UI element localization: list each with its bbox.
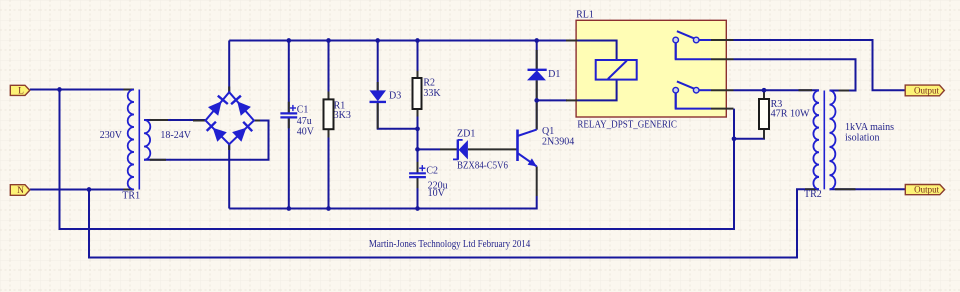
- svg-text:18-24V: 18-24V: [160, 130, 191, 141]
- svg-text:Output: Output: [914, 87, 939, 97]
- svg-text:BZX84-C5V6: BZX84-C5V6: [457, 160, 508, 171]
- svg-text:L: L: [18, 86, 24, 96]
- svg-text:isolation: isolation: [845, 133, 879, 144]
- svg-text:47u: 47u: [297, 116, 312, 127]
- svg-text:10V: 10V: [428, 188, 446, 199]
- svg-text:Output: Output: [914, 186, 939, 196]
- svg-text:ZD1: ZD1: [457, 128, 475, 139]
- svg-text:230V: 230V: [100, 130, 123, 141]
- svg-text:C1: C1: [297, 104, 309, 115]
- svg-text:D1: D1: [548, 69, 560, 80]
- svg-text:R2: R2: [423, 78, 435, 89]
- svg-text:40V: 40V: [297, 126, 315, 137]
- svg-text:D3: D3: [389, 91, 401, 102]
- svg-text:N: N: [17, 186, 24, 196]
- svg-text:RL1: RL1: [576, 10, 594, 21]
- svg-text:RELAY_DPST_GENERIC: RELAY_DPST_GENERIC: [577, 119, 677, 130]
- svg-text:1kVA mains: 1kVA mains: [845, 122, 894, 133]
- svg-text:47R 10W: 47R 10W: [771, 108, 811, 119]
- svg-text:TR2: TR2: [804, 189, 822, 200]
- svg-text:2N3904: 2N3904: [542, 136, 574, 147]
- svg-text:TR1: TR1: [122, 191, 140, 202]
- svg-text:3K3: 3K3: [334, 110, 351, 121]
- svg-text:33K: 33K: [423, 88, 441, 99]
- svg-text:Martin-Jones Technology Ltd Fe: Martin-Jones Technology Ltd February 201…: [369, 239, 530, 250]
- svg-text:C2: C2: [426, 165, 438, 176]
